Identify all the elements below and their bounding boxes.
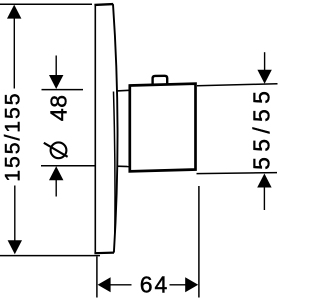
dimension Ø48: down arrowhead: [49, 75, 63, 89]
svg-text:155/155: 155/155: [1, 91, 25, 181]
dimension 55/55: lower shaft: [263, 186, 265, 210]
svg-text:64: 64: [140, 272, 170, 298]
dimension 64: left extension line: [96, 257, 98, 298]
dimension 64: right arrowhead: [185, 277, 198, 292]
dimension 155/155: bottom extension line: [0, 255, 100, 257]
dimension 55/55: top extension line: [197, 84, 278, 86]
dimension 64: left arrowhead: [98, 277, 111, 292]
svg-text:48: 48: [45, 94, 71, 121]
escutcheon plate top edge: [94, 3, 113, 6]
dimension Ø48: top extension tick: [42, 89, 84, 91]
dimension 155/155: upper shaft: [13, 18, 15, 89]
dimension 64: right shaft: [170, 284, 187, 286]
escutcheon plate bottom edge: [94, 252, 114, 255]
thermostat handle body: [130, 84, 196, 172]
dimension 55/55: up arrowhead: [257, 174, 271, 188]
dimension 55/55: bottom extension line: [197, 173, 278, 174]
sleeve bottom edge: [117, 165, 130, 167]
dimension 155/155: up arrowhead: [7, 5, 21, 19]
svg-text:55/55: 55/55: [249, 86, 275, 170]
escutcheon plate front face contour line: [114, 92, 116, 234]
dimension 64: left shaft: [110, 284, 132, 286]
dimension 155/155: down arrowhead: [8, 240, 22, 254]
dimension Ø48: up arrowhead: [49, 166, 63, 180]
dimension 55/55: down arrowhead: [257, 70, 271, 84]
dimension Ø48: upper shaft: [55, 56, 57, 77]
dimension Ø48: diameter symbol circle: [51, 142, 67, 158]
dimension 64: right extension line: [198, 186, 200, 298]
dimension 155/155: top extension line: [0, 3, 92, 5]
escutcheon plate back edge: [94, 4, 96, 253]
dimension 155/155: lower shaft: [14, 186, 16, 242]
escutcheon plate front silhouette curve: [113, 4, 118, 252]
sleeve top edge: [117, 89, 130, 92]
dimension Ø48: diameter symbol slash: [44, 143, 68, 157]
dimension 55/55: upper shaft: [264, 52, 266, 71]
safety button on handle top: [153, 76, 168, 85]
dimension Ø48: bottom extension line: [41, 165, 96, 167]
dimension Ø48: lower shaft: [55, 180, 57, 197]
